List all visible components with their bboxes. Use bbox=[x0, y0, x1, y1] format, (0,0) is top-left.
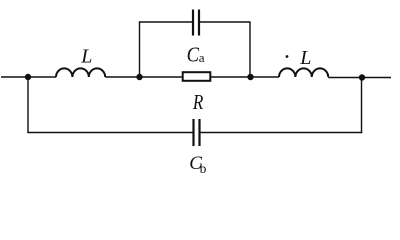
wire: between left inductor and middle node bbox=[105, 76, 182, 78]
wire: between resistor and middle-right node bbox=[211, 76, 279, 78]
svg-text:L: L bbox=[80, 45, 92, 67]
wire: top rail right segment bbox=[200, 21, 251, 23]
node D (right junction dot) bbox=[359, 74, 365, 80]
decorative dot before right L label bbox=[286, 55, 289, 58]
node B (middle-left junction dot) bbox=[136, 74, 142, 80]
node A (left junction dot) bbox=[25, 74, 31, 80]
wire: left drop of bottom branch bbox=[27, 77, 29, 133]
capacitor Ca (top branch plates) bbox=[192, 10, 194, 36]
wire: bottom rail left segment bbox=[27, 132, 192, 134]
svg-text:L: L bbox=[299, 47, 311, 69]
svg-text:b: b bbox=[200, 161, 207, 176]
wire: right riser of top branch bbox=[249, 22, 251, 77]
wire: top rail left segment bbox=[139, 21, 192, 23]
wire: main right lead bbox=[328, 77, 391, 79]
inductor L (right) bbox=[279, 68, 328, 77]
node C (middle-right junction dot) bbox=[247, 74, 253, 80]
wire: bottom rail right segment bbox=[201, 132, 363, 134]
wire: left riser of top branch bbox=[139, 22, 141, 77]
wire: right drop of bottom branch bbox=[361, 78, 363, 133]
inductor L (left) bbox=[56, 68, 105, 77]
capacitor Cb (bottom branch plates) bbox=[192, 119, 194, 146]
resistor R (box) bbox=[183, 72, 211, 81]
svg-text:R: R bbox=[192, 90, 203, 114]
wire: main left lead bbox=[1, 76, 56, 78]
svg-text:a: a bbox=[199, 50, 205, 65]
